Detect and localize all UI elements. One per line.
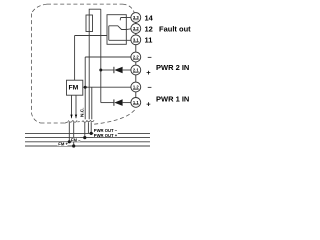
relay box U1	[107, 15, 126, 45]
svg-text:1.2: 1.2	[133, 85, 139, 90]
svg-text:FM: FM	[68, 85, 78, 92]
svg-text:3.3: 3.3	[133, 15, 139, 20]
wire third pin from FM row	[91, 87, 93, 119]
wire FM feed	[74, 36, 76, 81]
svg-text:PWR 1 IN: PWR 1 IN	[156, 94, 189, 103]
junction dot FM row / minus rail	[84, 86, 87, 89]
svg-text:2.1: 2.1	[133, 68, 139, 73]
diode D1	[114, 99, 131, 106]
terminal numbers	[133, 15, 139, 105]
bus PWR OUT plus	[25, 137, 150, 139]
wire PWR1 plus row	[101, 102, 114, 104]
terminal 3.3	[131, 13, 141, 23]
wire FM pin right below socket	[73, 122, 75, 146]
svg-text:+: +	[146, 100, 151, 109]
wire minus rail	[84, 57, 86, 119]
bus PWR OUT minus	[25, 132, 150, 134]
terminal 1.2	[131, 82, 141, 92]
wire FM minus row	[83, 86, 131, 88]
module outline dashed	[31, 4, 134, 124]
svg-text:14: 14	[145, 13, 154, 22]
terminal 3.1	[131, 35, 141, 45]
wire FM pin right	[75, 95, 77, 118]
wire third pin below socket to bus1	[90, 122, 92, 133]
diode D2	[114, 67, 131, 74]
label PWR OUT +	[93, 133, 118, 137]
wire FM pin left	[71, 95, 73, 118]
label FM +	[58, 142, 68, 146]
wire fuse-bottom node horizontal	[75, 35, 108, 37]
wire FM pin left below socket	[68, 122, 70, 142]
bus labels	[58, 128, 118, 147]
svg-text:Fault out: Fault out	[159, 24, 191, 33]
svg-text:FM –: FM –	[71, 137, 81, 142]
outline stubs between terminals	[135, 45, 137, 52]
label FM -	[70, 138, 80, 142]
junction dot diode2 / + rail	[99, 69, 102, 72]
junction dot third pin to bus1	[90, 132, 93, 135]
svg-text:3.1: 3.1	[133, 38, 139, 43]
arrow FM pin left	[70, 115, 72, 118]
terminal chords	[133, 20, 139, 105]
svg-text:–: –	[148, 83, 152, 92]
svg-text:3.2: 3.2	[133, 26, 139, 31]
wire terminal 12	[126, 28, 131, 31]
wire fuse bottom down to bus1	[88, 33, 90, 120]
relay common link	[108, 26, 110, 41]
svg-text:FM +: FM +	[58, 142, 68, 147]
wire PWR2 plus row	[101, 69, 114, 71]
junction dots over labels	[68, 132, 93, 148]
contact labels	[145, 13, 192, 108]
wire + rail	[100, 9, 102, 102]
terminal circles column	[131, 13, 141, 108]
terminal 2.2	[131, 52, 141, 62]
svg-text:11: 11	[145, 36, 153, 45]
FM box	[67, 80, 83, 95]
fuse F1	[86, 14, 93, 33]
terminal 3.2	[131, 24, 141, 34]
arrow FM pin right	[75, 115, 77, 118]
wire fuse pin below socket	[87, 122, 89, 133]
wire PWR2 minus row	[85, 56, 131, 58]
junction dot FM left pin to bus3 FM minus	[68, 140, 71, 143]
svg-text:12: 12	[145, 24, 153, 33]
svg-text:PWR 2 IN: PWR 2 IN	[156, 63, 189, 72]
svg-text:2.2: 2.2	[133, 55, 139, 60]
svg-text:1.1: 1.1	[133, 100, 139, 105]
junction dot minus rail to bus2	[83, 136, 86, 139]
relay contact arm	[109, 26, 127, 30]
wire minus pin below socket to bus2	[84, 122, 86, 137]
terminal 2.1	[131, 65, 141, 75]
svg-text:N.C.: N.C.	[79, 108, 84, 117]
svg-text:–: –	[148, 53, 152, 62]
socket contacts row	[69, 120, 94, 122]
svg-text:+: +	[146, 68, 151, 77]
terminal 1.1	[131, 98, 141, 108]
wire terminal 14	[126, 17, 131, 19]
relay contact 14 stub	[120, 18, 126, 21]
svg-text:PWR OUT +: PWR OUT +	[94, 133, 118, 138]
wire fuse top over to + rail	[89, 9, 101, 14]
junction dot FM right pin to bus4 FM plus	[72, 144, 75, 147]
bus FM plus	[25, 145, 150, 147]
relay contact 11 line	[109, 39, 131, 41]
bus FM minus	[25, 141, 150, 143]
label PWR OUT -	[93, 128, 118, 132]
